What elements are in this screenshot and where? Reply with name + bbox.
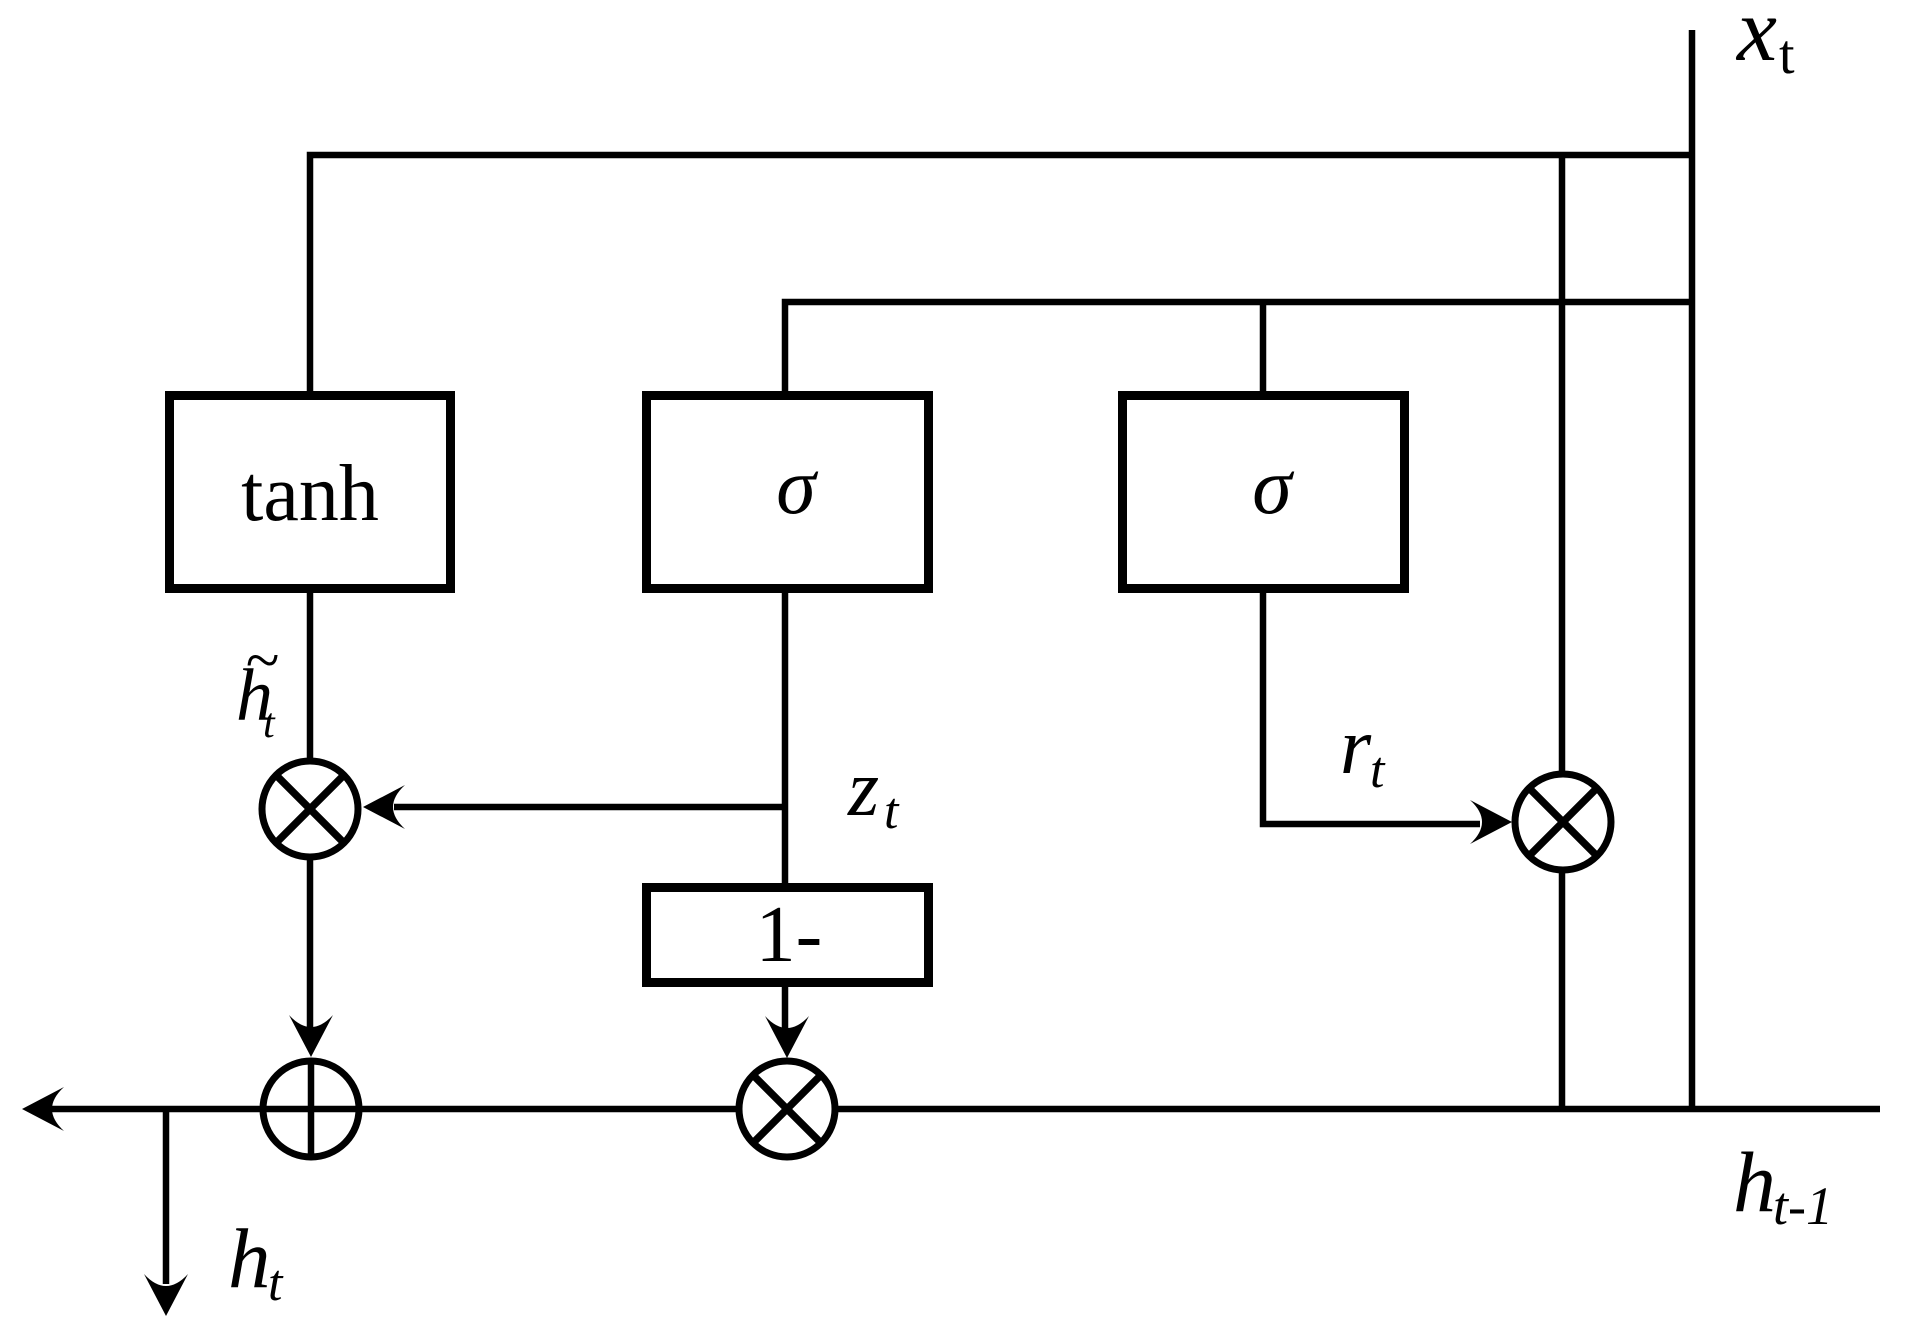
box 1- — [647, 888, 929, 983]
adder circle — [263, 1061, 359, 1157]
svg-text:t: t — [1370, 742, 1386, 799]
box tanh — [170, 396, 451, 589]
multiplier M2 cross — [754, 1076, 820, 1142]
wire z_t vertical from sigma1 to 1- box — [782, 593, 789, 887]
svg-text:t: t — [263, 701, 276, 747]
svg-text:z: z — [847, 745, 879, 833]
multiplier M1 circle — [262, 761, 358, 857]
svg-text:h: h — [228, 1212, 271, 1306]
wire bottom h line — [42, 1106, 1880, 1113]
svg-text:h: h — [1733, 1134, 1776, 1230]
arrowhead down h_t — [144, 1274, 188, 1316]
wire x_t vertical line — [1689, 30, 1696, 1109]
multiplier M2 circle — [739, 1061, 835, 1157]
svg-text:σ: σ — [1252, 443, 1294, 531]
arrowhead right into M3 — [1470, 800, 1512, 844]
svg-text:t: t — [884, 783, 900, 840]
wire r_t path from sigma2 down and right into multiplier M3 — [1263, 593, 1480, 824]
svg-text:σ: σ — [776, 443, 818, 531]
wire z_t horizontal arrow into multiplier M1 — [394, 804, 785, 811]
svg-text:x: x — [1735, 0, 1777, 80]
svg-text:~: ~ — [245, 627, 279, 695]
box sigma1 (update gate) — [647, 396, 929, 589]
wire top horizontal bus from tanh drop to x_t line — [310, 155, 1692, 391]
svg-text:r: r — [1340, 703, 1372, 791]
wire inner vertical h_t-1 feed line — [1559, 155, 1566, 1109]
wire M1 output down to adder — [307, 856, 314, 1035]
svg-text:1-: 1- — [756, 891, 823, 979]
adder plus — [263, 1061, 359, 1157]
svg-text:t: t — [1779, 24, 1795, 86]
arrowhead down into M2 — [765, 1016, 809, 1058]
svg-text:t: t — [268, 1255, 284, 1312]
svg-text:tanh: tanh — [241, 450, 379, 538]
wire tanh output down to multiplier M1 — [307, 593, 314, 762]
svg-text:t-1: t-1 — [1773, 1176, 1833, 1236]
wire 1- box output down to multiplier M2 — [782, 987, 789, 1036]
arrowhead down into adder — [289, 1015, 333, 1057]
wire h_t branch down — [163, 1109, 170, 1284]
multiplier M3 cross — [1530, 789, 1596, 855]
box sigma2 (reset gate) — [1123, 396, 1405, 589]
arrowhead left into M1 — [363, 785, 405, 829]
wire sigma2 top drop from second bus — [1260, 302, 1267, 391]
multiplier M1 cross — [277, 776, 343, 842]
wire second horizontal bus from sigma1 drop to x_t line — [785, 302, 1692, 391]
multiplier M3 circle — [1515, 774, 1611, 870]
arrowhead left at bottom line output — [22, 1087, 64, 1131]
